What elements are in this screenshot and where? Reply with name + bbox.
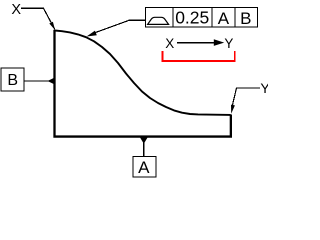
part outline: left, bottom, right edges [54, 30, 233, 138]
part profile curve (top surface X to Y) [55, 31, 231, 115]
svg-text:A: A [138, 158, 150, 177]
datum B box [1, 68, 24, 91]
svg-text:B: B [240, 9, 251, 28]
red between bracket [163, 51, 235, 61]
datum A triangle [140, 137, 148, 144]
svg-text:X: X [165, 36, 174, 51]
profile of a surface symbol [148, 17, 169, 24]
wire: leader from Y to top-right corner [232, 88, 260, 107]
svg-text:B: B [7, 72, 18, 89]
arrowhead of X leader [49, 22, 55, 30]
feature control frame box [145, 7, 257, 27]
arrowhead of Y leader [231, 105, 235, 114]
wire: datum B leader [24, 80, 49, 82]
wire: between arrow line [177, 42, 215, 44]
svg-text:0.25: 0.25 [175, 8, 209, 28]
arrowhead of between arrow [214, 39, 224, 46]
wire: leader from feature control frame to curve [93, 20, 145, 33]
svg-text:X: X [11, 2, 21, 18]
svg-text:Y: Y [224, 36, 233, 51]
wire: datum A leader [143, 143, 145, 157]
svg-text:A: A [218, 9, 230, 28]
datum B triangle [48, 78, 55, 85]
datum A box [133, 156, 156, 177]
svg-text:Y: Y [260, 80, 268, 96]
wire: leader from X to top-left corner [21, 8, 55, 29]
arrowhead of FCF leader [87, 31, 97, 37]
